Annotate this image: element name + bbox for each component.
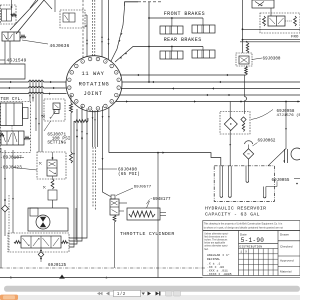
svg-text:.XXXX ± .0005: .XXXX ± .0005 <box>207 273 232 276</box>
svg-text:46J0636: 46J0636 <box>50 43 70 49</box>
svg-text:.X ± .1: .X ± .1 <box>207 263 220 266</box>
svg-text:1: 1 <box>71 72 72 74</box>
svg-text:DISTRIBUTION: DISTRIBUTION <box>240 246 263 249</box>
svg-text:5: 5 <box>97 108 98 110</box>
svg-text:unless otherwise speci-: unless otherwise speci- <box>204 245 228 248</box>
svg-text:to whom or in part, of design: to whom or in part, of design and detail… <box>204 226 283 229</box>
svg-text:3: 3 <box>111 101 112 103</box>
svg-text:6: 6 <box>90 108 91 110</box>
svg-text:SETTING: SETTING <box>47 141 66 146</box>
svg-text:2: 2 <box>76 66 77 68</box>
svg-text:DECIMAL: DECIMAL <box>207 258 220 261</box>
svg-text:This drawing is the property o: This drawing is the property of Link-Bel… <box>204 223 283 226</box>
svg-text:11 WAY: 11 WAY <box>82 71 105 77</box>
svg-text:3: 3 <box>82 61 83 63</box>
svg-text:below are applicable: below are applicable <box>204 242 226 245</box>
svg-text:inches. The tolerances: inches. The tolerances <box>204 239 228 242</box>
svg-text:Checked: Checked <box>280 245 293 249</box>
svg-text:CAPACITY - 63 GAL: CAPACITY - 63 GAL <box>205 212 260 218</box>
svg-text:(65 PSI): (65 PSI) <box>118 172 140 177</box>
svg-text:4: 4 <box>90 59 91 61</box>
svg-text:10: 10 <box>68 87 70 89</box>
svg-text:46J1549: 46J1549 <box>7 58 27 64</box>
svg-text:69J0062: 69J0062 <box>258 140 276 144</box>
svg-text:9: 9 <box>118 79 119 81</box>
svg-text:11: 11 <box>68 79 70 81</box>
svg-text:1: 1 <box>118 87 119 89</box>
svg-text:4: 4 <box>105 106 106 108</box>
svg-text:69J0300: 69J0300 <box>263 58 281 62</box>
svg-text:ANGULAR ± 1°: ANGULAR ± 1° <box>207 253 230 257</box>
svg-text:7: 7 <box>111 66 112 68</box>
svg-text:5-1-90: 5-1-90 <box>241 237 264 244</box>
svg-text:Unless otherwise speci-: Unless otherwise speci- <box>204 232 228 235</box>
svg-text:ROTATING: ROTATING <box>79 81 110 87</box>
svg-text:fied.: fied. <box>204 249 209 251</box>
svg-text:X: X <box>245 251 247 254</box>
svg-text:2: 2 <box>116 95 117 97</box>
svg-text:REAR BRAKES: REAR BRAKES <box>164 37 202 43</box>
svg-text:47J1576 (ELEM: 47J1576 (ELEM <box>277 113 301 118</box>
svg-text:8: 8 <box>76 101 77 103</box>
svg-text:5: 5 <box>97 59 98 61</box>
svg-text:1 / 2: 1 / 2 <box>117 291 126 296</box>
svg-text:8: 8 <box>116 72 117 74</box>
svg-text:1: 1 <box>240 251 242 254</box>
svg-text:FRO: FRO <box>291 36 299 40</box>
svg-text:Drawn: Drawn <box>280 232 289 236</box>
svg-text:-6948177: -6948177 <box>150 198 171 202</box>
svg-text:6: 6 <box>105 61 106 63</box>
svg-text:FRONT BRAKES: FRONT BRAKES <box>164 11 205 17</box>
svg-text:Material: Material <box>280 270 292 274</box>
svg-text:-69J0107: -69J0107 <box>0 156 22 161</box>
svg-text:JOINT: JOINT <box>84 91 103 97</box>
svg-text:69J0055: 69J0055 <box>272 179 290 183</box>
svg-text:fied dimensions are in: fied dimensions are in <box>204 235 227 238</box>
svg-text:Approved: Approved <box>280 259 294 263</box>
svg-text:9: 9 <box>71 95 72 97</box>
svg-text:69J0577: 69J0577 <box>134 186 152 190</box>
svg-text:Date: Date <box>240 232 247 236</box>
svg-text:THROTTLE CYLINDER: THROTTLE CYLINDER <box>120 231 175 237</box>
svg-text:69J0125: 69J0125 <box>48 264 67 268</box>
svg-text:HYDRAULIC RESERVOIR: HYDRAULIC RESERVOIR <box>205 206 266 212</box>
